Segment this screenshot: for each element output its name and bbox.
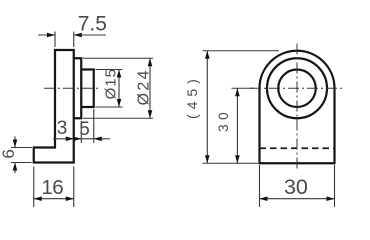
- svg-text:Ø15: Ø15: [103, 68, 120, 99]
- svg-text:16: 16: [41, 176, 63, 199]
- svg-text:(45): (45): [184, 74, 200, 119]
- svg-text:30: 30: [284, 175, 308, 199]
- svg-text:30: 30: [216, 108, 231, 132]
- svg-text:7.5: 7.5: [78, 13, 107, 36]
- svg-text:5: 5: [79, 119, 90, 140]
- svg-text:3: 3: [57, 118, 68, 139]
- svg-text:Ø24: Ø24: [135, 68, 152, 105]
- svg-text:6: 6: [0, 149, 18, 158]
